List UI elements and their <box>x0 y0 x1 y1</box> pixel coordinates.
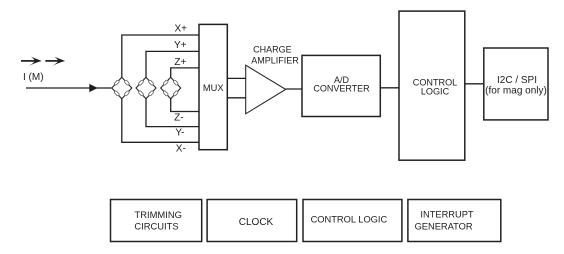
bridge X (diamond 1) <box>112 77 132 99</box>
svg-text:Y+: Y+ <box>174 40 187 51</box>
control logic box (bottom) <box>303 200 402 242</box>
svg-text:I (M): I (M) <box>23 72 44 83</box>
field arrow 1 <box>21 57 42 66</box>
wire X- <box>122 99 199 143</box>
wire X+ <box>122 35 199 77</box>
svg-text:Y-: Y- <box>175 128 184 139</box>
wire Y- <box>146 99 199 127</box>
svg-text:INTERRUPT: INTERRUPT <box>420 210 474 220</box>
field arrow 2 <box>45 57 65 66</box>
svg-text:Z-: Z- <box>174 112 183 123</box>
charge amplifier triangle <box>246 65 286 114</box>
wire control logic to I2C <box>465 83 484 85</box>
A/D converter box <box>302 55 380 116</box>
I2C / SPI box <box>484 48 548 120</box>
svg-text:TRIMMING: TRIMMING <box>135 209 182 220</box>
wire MUX to amp (upper) <box>227 77 245 79</box>
interrupt generator box <box>408 200 501 242</box>
svg-text:CONTROL LOGIC: CONTROL LOGIC <box>311 215 388 225</box>
svg-text:LOGIC: LOGIC <box>421 87 450 97</box>
svg-text:(for mag only): (for mag only) <box>485 86 547 97</box>
bridge Z (diamond 3) <box>161 77 181 99</box>
wire MUX to amp (lower) <box>227 97 245 99</box>
svg-text:CONVERTER: CONVERTER <box>313 84 370 94</box>
bridge Y (diamond 2) <box>136 77 156 99</box>
wire amp to A/D <box>286 88 302 90</box>
MUX box <box>199 24 227 149</box>
trimming circuits box <box>111 200 202 242</box>
svg-text:CLOCK: CLOCK <box>239 217 274 228</box>
svg-text:CHARGE: CHARGE <box>253 45 292 55</box>
wire Z- <box>171 99 199 112</box>
svg-text:MUX: MUX <box>203 83 224 93</box>
wire Z+ <box>171 68 199 77</box>
svg-text:X-: X- <box>176 143 186 154</box>
input wire <box>26 87 112 89</box>
svg-text:AMPLIFIER: AMPLIFIER <box>251 56 299 66</box>
clock box <box>207 200 297 242</box>
svg-text:Z+: Z+ <box>174 57 186 68</box>
svg-text:X+: X+ <box>175 24 188 35</box>
wire Y+ <box>146 51 199 77</box>
svg-text:GENERATOR: GENERATOR <box>415 221 473 231</box>
control logic box <box>399 11 465 160</box>
svg-text:CIRCUITS: CIRCUITS <box>134 220 178 231</box>
input arrowhead <box>89 84 98 92</box>
wire A/D to control logic <box>380 87 399 89</box>
svg-text:I2C / SPI: I2C / SPI <box>497 75 537 86</box>
